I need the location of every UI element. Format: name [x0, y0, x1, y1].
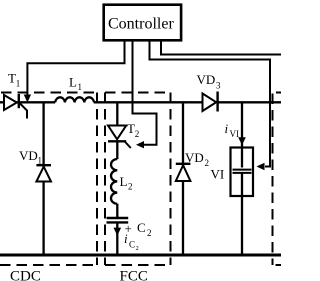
wire VD1 branch: [42, 102, 44, 255]
svg-text:3: 3: [216, 81, 221, 91]
dashed box CDC bottom edge: [0, 264, 97, 266]
svg-text:2: 2: [128, 182, 133, 192]
dashed box FCC bottom edge: [105, 264, 171, 266]
svg-text:VD: VD: [19, 148, 38, 163]
wire T2 to L2: [116, 141, 118, 160]
svg-text:Controller: Controller: [108, 16, 174, 33]
voltage inverter VI box: [231, 148, 254, 197]
wire controller drive to VI: [150, 41, 271, 167]
diode VD3 cathode bar: [216, 92, 218, 112]
diode VD1 triangle: [36, 167, 51, 182]
svg-text:L: L: [120, 174, 128, 189]
svg-text:FCC: FCC: [120, 269, 148, 281]
thyristor T1 triangle: [4, 95, 17, 110]
dashed box FCC left edge: [104, 93, 106, 266]
svg-text:2: 2: [205, 158, 210, 168]
wire C2 to bottom bus: [116, 223, 118, 255]
thyristor T1 cathode bar: [18, 94, 20, 108]
inductor L2: [111, 159, 117, 204]
arrowhead current iVI: [238, 137, 246, 145]
svg-text:1: 1: [38, 156, 43, 166]
svg-text:1: 1: [78, 82, 83, 92]
inductor L1: [55, 97, 94, 102]
thyristor T2 triangle: [108, 126, 126, 140]
svg-text:2: 2: [135, 129, 140, 139]
svg-text:i: i: [124, 231, 128, 246]
svg-text:L: L: [69, 75, 77, 90]
svg-text:C: C: [137, 220, 146, 235]
svg-text:2: 2: [136, 245, 139, 252]
VI inner bottom plate: [233, 172, 252, 174]
wire bottom return bus: [0, 254, 281, 257]
capacitor C2 top plate: [107, 217, 129, 219]
dashed box CDC right edge: [96, 93, 98, 266]
svg-text:T: T: [8, 71, 16, 86]
svg-text:C: C: [129, 240, 135, 250]
arrowhead gate T2: [136, 141, 144, 148]
thyristor T2 gate lead: [125, 142, 131, 148]
svg-text:T: T: [127, 121, 135, 136]
thyristor T2 cathode bar: [108, 140, 126, 142]
diode VD1 cathode bar: [36, 164, 51, 166]
arrowhead drive VI: [257, 163, 265, 170]
capacitor C2 bottom plate: [107, 221, 129, 223]
svg-text:i: i: [225, 121, 229, 136]
controller U1 box: [104, 5, 181, 41]
dashed box right converter top edge: [276, 92, 281, 94]
wire controller gate drive to T1: [27, 41, 124, 96]
wire VD2 branch: [182, 102, 184, 255]
wire controller output to right edge: [161, 41, 281, 55]
svg-text:VD: VD: [185, 150, 204, 165]
wire L2 to C2: [116, 204, 118, 218]
svg-text:2: 2: [147, 228, 152, 238]
dashed box CDC top edge: [1, 92, 97, 94]
svg-text:VI: VI: [230, 129, 240, 139]
wire controller gate drive to T2: [133, 41, 157, 145]
diode VD2 cathode bar: [176, 163, 191, 165]
wire T2 branch from top bus: [116, 102, 118, 125]
svg-text:1: 1: [16, 79, 20, 89]
dashed box right converter bottom edge: [276, 264, 282, 266]
wire VI to bottom bus: [241, 174, 243, 256]
diode VD3 triangle: [203, 94, 217, 112]
wire top bus left segment: [0, 101, 55, 103]
wire top bus right segment: [94, 101, 281, 103]
dashed box FCC top edge: [105, 92, 171, 94]
diode VD2 triangle: [176, 165, 191, 181]
dashed box right converter left edge: [272, 94, 274, 266]
thyristor T1 gate lead: [20, 103, 28, 119]
wire VI branch from top bus: [241, 102, 243, 167]
dashed box FCC right edge: [170, 93, 172, 266]
svg-text:VD: VD: [197, 72, 216, 87]
VI inner top plate: [233, 169, 252, 171]
arrowhead gate T1: [24, 95, 31, 103]
arrowhead current iC2: [114, 228, 122, 236]
svg-text:CDC: CDC: [10, 269, 41, 281]
svg-text:VI: VI: [211, 167, 225, 182]
